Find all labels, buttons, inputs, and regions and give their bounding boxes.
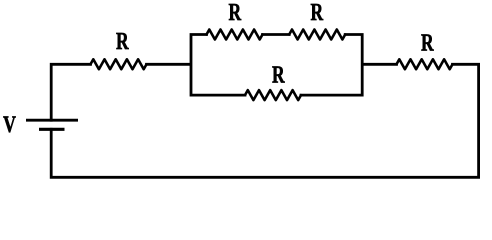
svg-text:R: R <box>311 0 324 26</box>
svg-text:V: V <box>3 112 16 137</box>
svg-text:R: R <box>421 29 434 56</box>
svg-text:R: R <box>272 62 285 89</box>
svg-text:R: R <box>116 28 129 55</box>
svg-text:R: R <box>229 0 242 26</box>
